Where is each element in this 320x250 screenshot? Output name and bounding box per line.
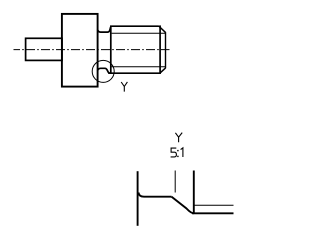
chamfer bottom diagonal	[160, 68, 166, 73]
detail: ramp to thread OD	[172, 197, 194, 214]
thread OD bottom line	[108, 72, 160, 74]
thread end face vertical	[165, 32, 167, 68]
detail circle Y	[92, 60, 114, 82]
groove top profile	[98, 27, 111, 32]
detail: groove line with fillet	[139, 193, 172, 197]
thread minor diameter top line	[112, 32, 166, 34]
label 5:1 (detail view scale)	[171, 148, 177, 157]
detail: flange face vertical	[137, 171, 139, 226]
detail: thread minor line	[194, 204, 234, 206]
thread shoulder vertical	[110, 26, 112, 73]
chamfer top diagonal	[159, 26, 166, 33]
detail: thread shoulder vertical	[193, 171, 195, 214]
label Y (main view)	[121, 82, 127, 92]
thread minor diameter bottom line	[112, 66, 166, 68]
centerline	[14, 49, 170, 51]
groove bottom profile	[98, 68, 110, 73]
label Y (detail view title)	[175, 133, 182, 143]
chamfer start vertical	[159, 25, 161, 74]
flange outline	[62, 14, 98, 87]
detail: tangent point thin vertical	[174, 171, 176, 193]
detail: thread OD line	[192, 212, 234, 214]
stub shaft outline	[26, 38, 62, 60]
thread OD top line	[110, 25, 159, 27]
